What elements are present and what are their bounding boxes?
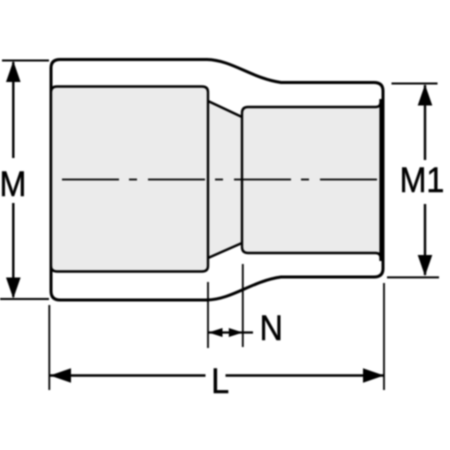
arrowhead N left xyxy=(209,328,223,337)
right socket bore outline xyxy=(242,100,381,260)
svg-text:L: L xyxy=(211,363,229,402)
dimension line M lower xyxy=(12,203,14,297)
svg-text:N: N xyxy=(260,310,283,349)
label N xyxy=(260,310,283,349)
extension line N left xyxy=(207,282,209,348)
dimension line M upper xyxy=(12,62,14,158)
arrowhead M1 down xyxy=(418,255,433,276)
dimension line L right xyxy=(226,374,385,376)
dimension line N xyxy=(209,331,254,333)
arrowhead N right xyxy=(229,328,243,337)
left socket bore outline xyxy=(51,87,208,272)
arrowhead L right xyxy=(363,368,384,383)
svg-text:M: M xyxy=(0,166,26,205)
centerline dash-dot xyxy=(62,179,378,181)
label M xyxy=(0,166,26,205)
extension line N right xyxy=(242,264,244,347)
svg-text:M1: M1 xyxy=(400,162,445,201)
extension line M bottom xyxy=(0,298,49,300)
fitting body outer shell xyxy=(51,60,383,301)
arrowhead L left xyxy=(50,368,71,383)
extension line M1 bottom xyxy=(387,276,439,278)
dimension line M1 lower xyxy=(424,204,426,275)
bore interior gray fill xyxy=(51,87,382,272)
dimension line M1 upper xyxy=(424,85,426,160)
right socket bore end line at mouth xyxy=(379,99,381,261)
label M1 xyxy=(400,162,445,201)
dimension line L left xyxy=(50,374,206,376)
label L xyxy=(211,363,229,402)
extension line L left xyxy=(48,305,50,390)
extension line L right xyxy=(383,283,385,390)
arrowhead M up xyxy=(6,61,21,82)
arrowhead M1 up xyxy=(418,85,433,106)
extension line M top xyxy=(2,60,49,62)
arrowhead M down xyxy=(6,278,21,299)
extension line M1 top xyxy=(392,83,438,85)
taper line top xyxy=(208,101,242,117)
taper line bottom xyxy=(208,243,242,258)
